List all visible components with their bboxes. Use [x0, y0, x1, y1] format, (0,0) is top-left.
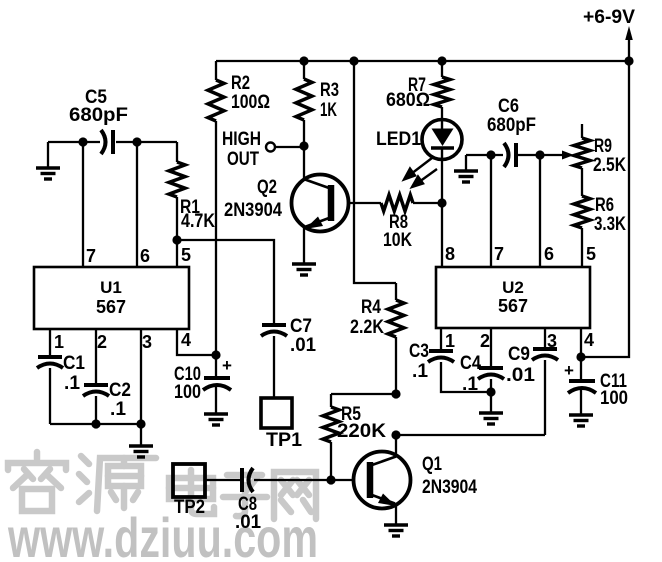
wire (R5 top): [331, 393, 396, 395]
pin 3 label (U2): [547, 331, 557, 351]
svg-text:4: 4: [584, 330, 594, 350]
capacitor C2: [83, 329, 131, 424]
transistor Q2: [224, 146, 381, 263]
LED LED1: [376, 120, 462, 160]
ground (C10): [204, 414, 228, 425]
ground (Q1 emitter): [384, 525, 408, 536]
resistor R5: [323, 394, 386, 480]
svg-text:1K: 1K: [320, 100, 337, 121]
svg-text:7: 7: [494, 244, 504, 264]
svg-text:.1: .1: [64, 373, 80, 394]
ground (C5 left): [36, 142, 60, 179]
svg-text:680Ω: 680Ω: [386, 90, 430, 111]
svg-text:+6-9V: +6-9V: [583, 7, 635, 28]
svg-text:100: 100: [600, 388, 628, 409]
ground (C6 left): [454, 155, 478, 182]
ground (U1): [129, 424, 153, 457]
svg-text:4.7K: 4.7K: [181, 211, 215, 232]
IC U2 567: [436, 267, 590, 328]
svg-text:2.2K: 2.2K: [350, 317, 384, 338]
capacitor C7: [261, 316, 316, 397]
wire (C5 net): [48, 141, 177, 143]
wire (U1 pin4 to C10): [177, 329, 216, 355]
wire (U2 pin7): [490, 155, 492, 267]
terminal HIGH OUT: [222, 129, 304, 170]
wiper arrow (R9): [562, 151, 574, 160]
svg-text:2.5K: 2.5K: [593, 155, 626, 176]
node R3/HIGHOUT/Q2C: [299, 141, 308, 150]
svg-text:+: +: [222, 356, 232, 375]
node U2pin4/C11/supply: [576, 352, 585, 361]
node C5/U1pin6: [132, 137, 141, 146]
node C6/U2pin7: [486, 150, 495, 159]
node rail right corner: [624, 56, 633, 65]
resistor R1: [169, 142, 215, 240]
node R4/R5: [391, 389, 400, 398]
testpoint TP2: [173, 464, 205, 518]
node rail-R7: [437, 56, 446, 65]
capacitor C8: [235, 468, 331, 533]
node C3/C4 gnd: [486, 387, 495, 396]
svg-text:100: 100: [174, 382, 201, 403]
pin 5 label (U2): [586, 244, 596, 264]
svg-text:C2: C2: [109, 380, 131, 401]
svg-text:8: 8: [445, 244, 455, 264]
svg-text:+: +: [564, 361, 574, 380]
capacitor C4: [460, 328, 504, 395]
svg-text:R4: R4: [361, 297, 381, 318]
pin 3 label (U1): [142, 332, 152, 352]
svg-text:Q2: Q2: [257, 177, 277, 198]
IC U1 567: [34, 267, 189, 329]
node R2/U1pin4/C10: [211, 350, 220, 359]
capacitor C10: [174, 355, 232, 413]
svg-text:7: 7: [86, 246, 96, 266]
svg-text:C9: C9: [508, 344, 530, 365]
resistor R8: [381, 195, 442, 251]
svg-text:.1: .1: [110, 399, 126, 420]
svg-text:R6: R6: [595, 195, 614, 216]
node R4/Q1 collector/C9 wire: [391, 430, 400, 439]
wire (to C9 bottom): [396, 434, 545, 436]
LED light arrows: [404, 158, 437, 187]
svg-text:R3: R3: [320, 80, 339, 101]
wire (U1 pin3): [140, 329, 142, 424]
svg-text:680pF: 680pF: [69, 105, 128, 126]
wire (C6 net): [466, 154, 566, 156]
node rail-R4 branch: [349, 56, 358, 65]
svg-text:.01: .01: [506, 365, 535, 386]
svg-text:.01: .01: [235, 512, 261, 533]
svg-text:6: 6: [544, 244, 554, 264]
svg-text:TP2: TP2: [174, 497, 205, 518]
power +6-9V terminal: [583, 7, 635, 61]
node C5/U1pin7: [78, 137, 87, 146]
svg-text:2: 2: [480, 331, 490, 351]
transistor Q1: [331, 435, 477, 525]
resistor R7: [386, 61, 450, 120]
svg-text:567: 567: [498, 296, 528, 316]
svg-text:TP1: TP1: [266, 430, 302, 451]
wire (rail to R4): [354, 61, 396, 283]
svg-text:2N3904: 2N3904: [224, 200, 282, 221]
svg-text:3.3K: 3.3K: [594, 214, 626, 235]
testpoint TP1: [261, 398, 302, 451]
svg-text:R2: R2: [231, 73, 250, 94]
resistor R6: [574, 195, 626, 267]
svg-text:2: 2: [97, 332, 107, 352]
svg-text:.01: .01: [290, 335, 316, 356]
pin 1 label (U2): [445, 331, 455, 351]
svg-text:5: 5: [586, 244, 596, 264]
node R5/Q1 base/C8: [326, 475, 335, 484]
svg-text:C1: C1: [63, 353, 85, 374]
node C2/bus: [91, 419, 100, 428]
wire (pin5 to C7): [177, 240, 274, 324]
resistor R4: [350, 283, 404, 394]
pin 8 label (U2): [445, 244, 455, 264]
svg-text:.1: .1: [462, 374, 478, 395]
svg-text:.1: .1: [412, 361, 428, 382]
capacitor C9: [506, 328, 558, 435]
svg-text:Q1: Q1: [422, 454, 442, 475]
watermark: [7, 452, 318, 562]
svg-text:OUT: OUT: [227, 149, 259, 170]
svg-text:3: 3: [142, 332, 152, 352]
node rail-R3: [299, 56, 308, 65]
svg-text:567: 567: [96, 297, 126, 317]
pin 2 label (U1): [97, 332, 107, 352]
wire (supply right side down to U2 pin4): [581, 61, 629, 357]
capacitor C6: [487, 96, 536, 167]
wire (U2 pin4): [580, 328, 582, 357]
svg-text:C4: C4: [460, 353, 481, 374]
capacitor C3: [409, 328, 491, 392]
svg-text:1: 1: [54, 332, 64, 352]
svg-text:220K: 220K: [337, 421, 386, 442]
wire (+V rail): [216, 60, 629, 62]
wire (U1 pin6): [136, 142, 138, 267]
node pin3/bus: [136, 419, 145, 428]
pin 1 label (U1): [54, 332, 64, 352]
ground (Q2 emitter): [292, 264, 316, 275]
wire (U2 pin6): [539, 155, 541, 267]
potentiometer R9: [574, 124, 626, 196]
svg-text:HIGH: HIGH: [222, 129, 261, 150]
wire (U1 pin5 stub): [176, 240, 178, 267]
capacitor C5: [69, 87, 128, 154]
capacitor C11: [564, 357, 628, 415]
svg-text:680pF: 680pF: [487, 115, 536, 136]
svg-text:LED1: LED1: [376, 129, 421, 150]
pin 2 label (U2): [480, 331, 490, 351]
pin 7 label (U2): [494, 244, 504, 264]
resistor R2: [208, 61, 270, 355]
svg-text:1: 1: [445, 331, 455, 351]
svg-text:4: 4: [181, 330, 191, 350]
capacitor C1: [37, 329, 85, 424]
svg-text:5: 5: [181, 245, 191, 265]
svg-text:100Ω: 100Ω: [231, 92, 270, 113]
pin 4 label (U2): [584, 330, 594, 350]
svg-text:U1: U1: [100, 278, 122, 297]
resistor R3: [296, 61, 339, 146]
svg-text:C6: C6: [498, 96, 519, 117]
svg-text:10K: 10K: [383, 230, 412, 251]
svg-text:C3: C3: [409, 341, 429, 362]
pin 6 label (U1): [140, 246, 150, 266]
pin 7 label (U1): [86, 246, 96, 266]
ground (C11): [569, 415, 593, 426]
svg-text:www.dziuu.com: www.dziuu.com: [7, 506, 318, 562]
wire (U1 gnd bus): [50, 423, 141, 425]
wire (LED cathode down to U2 pin8): [441, 160, 443, 268]
svg-text:6: 6: [140, 246, 150, 266]
svg-text:R9: R9: [594, 136, 612, 157]
node R1/U1pin5/C7: [172, 235, 181, 244]
node C6/U2pin6: [535, 150, 544, 159]
wire (TP2 to C8): [205, 479, 241, 481]
svg-text:U2: U2: [502, 278, 524, 297]
ground (C4): [479, 392, 503, 424]
pin 5 label (U1): [181, 245, 191, 265]
svg-text:2N3904: 2N3904: [422, 477, 477, 498]
svg-text:C7: C7: [290, 316, 312, 337]
pin 4 label (U1): [181, 330, 191, 350]
pin 6 label (U2): [544, 244, 554, 264]
node LED/R8: [437, 198, 446, 207]
wire (U1 pin7): [82, 142, 84, 267]
